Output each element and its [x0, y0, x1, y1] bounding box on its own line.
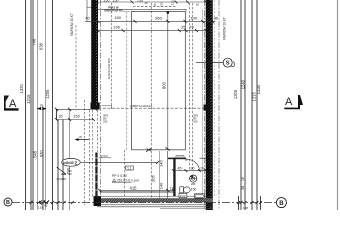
svg-text:16: 16: [241, 177, 245, 181]
svg-text:800: 800: [161, 81, 166, 89]
svg-text:360: 360: [155, 16, 162, 21]
svg-text:261.62 m n.p.m.: 261.62 m n.p.m.: [117, 178, 140, 182]
svg-text:3x8x30: 3x8x30: [62, 161, 73, 165]
svg-text:280: 280: [191, 182, 196, 186]
svg-text:100: 100: [190, 16, 197, 21]
svg-text:1215: 1215: [26, 94, 31, 104]
svg-text:1330: 1330: [256, 84, 261, 94]
svg-text:45: 45: [44, 204, 48, 208]
svg-text:150: 150: [104, 0, 110, 3]
svg-text:MWROW 20.KT: MWROW 20.KT: [223, 17, 227, 40]
svg-text:B: B: [279, 201, 284, 207]
svg-text:35: 35: [59, 115, 63, 119]
svg-text:NN: NN: [68, 173, 72, 176]
svg-text:746: 746: [32, 38, 37, 46]
svg-text:1320: 1320: [19, 84, 24, 94]
svg-text:128: 128: [243, 206, 248, 210]
svg-text:20: 20: [145, 1, 149, 5]
svg-text:1205: 1205: [233, 89, 238, 99]
svg-text:70: 70: [153, 3, 157, 7]
svg-text:MWROW 20.KT: MWROW 20.KT: [70, 13, 74, 36]
svg-text:140: 140: [159, 182, 164, 189]
svg-text:150: 150: [171, 0, 175, 5]
svg-text:A: A: [9, 98, 17, 110]
svg-text:2/1685: 2/1685: [57, 177, 67, 181]
svg-text:75: 75: [40, 104, 44, 108]
svg-text:520: 520: [39, 150, 44, 158]
svg-text:ORKOP NA-BA: ORKOP NA-BA: [104, 8, 123, 12]
svg-text:1240: 1240: [240, 79, 245, 89]
svg-text:Z: Z: [75, 160, 78, 165]
svg-text:S: S: [226, 61, 230, 67]
svg-text:545: 545: [32, 150, 37, 158]
svg-text:40: 40: [85, 16, 90, 21]
svg-text:45: 45: [178, 166, 182, 170]
svg-text:A: A: [285, 96, 293, 108]
svg-text:25: 25: [181, 25, 186, 30]
svg-text:415: 415: [130, 186, 138, 191]
svg-text:1/22: 1/22: [180, 194, 186, 198]
svg-text:200: 200: [193, 120, 198, 124]
svg-text:(OBRYS DACHU): (OBRYS DACHU): [130, 104, 152, 108]
svg-text:195: 195: [113, 25, 120, 30]
svg-text:150: 150: [114, 15, 121, 20]
svg-text:PP ± 0.00: PP ± 0.00: [112, 174, 127, 178]
svg-text:1205: 1205: [45, 89, 50, 99]
svg-text:128: 128: [38, 206, 43, 210]
svg-text:10: 10: [196, 3, 200, 7]
svg-text:GAR13 GR.8PL: GAR13 GR.8PL: [107, 57, 111, 79]
svg-text:638: 638: [39, 42, 44, 50]
svg-text:10: 10: [200, 166, 204, 170]
svg-text:730: 730: [137, 0, 143, 3]
svg-text:130: 130: [160, 2, 164, 7]
svg-text:150: 150: [73, 114, 80, 119]
svg-text:90: 90: [191, 166, 195, 170]
svg-text:58: 58: [241, 186, 245, 190]
svg-text:75: 75: [189, 25, 194, 30]
svg-text:150: 150: [191, 187, 197, 191]
svg-text:150: 150: [113, 0, 119, 3]
svg-text:B: B: [6, 200, 10, 206]
svg-text:200: 200: [103, 120, 108, 124]
svg-text:1.1: 1.1: [127, 166, 132, 170]
svg-text:40: 40: [214, 16, 219, 21]
svg-text:305: 305: [151, 175, 156, 182]
